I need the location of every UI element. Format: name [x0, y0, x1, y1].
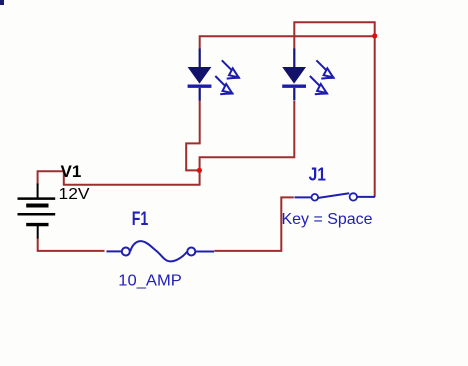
LED2 arrow 2: [310, 76, 328, 94]
battery V1: [18, 184, 56, 239]
switch J1: [295, 193, 376, 200]
LED1: [188, 49, 240, 101]
junction node B: [372, 33, 377, 38]
wire switch J1 left to fuse right: [214, 197, 293, 251]
LED1 arrow 1: [222, 60, 240, 78]
svg-text:J1: J1: [309, 164, 326, 184]
wire node A to LED1 cathode: [186, 100, 200, 170]
svg-text:F1: F1: [132, 209, 149, 230]
svg-text:10_AMP: 10_AMP: [118, 273, 182, 290]
LED2 arrow 1: [316, 60, 334, 78]
svg-text:12V: 12V: [59, 186, 90, 203]
wire battery plus to node A: [38, 170, 200, 185]
svg-text:V1: V1: [61, 162, 82, 181]
wire node A to LED2 cathode: [200, 101, 295, 170]
wire LED2 anode to switch J1 right via node B: [294, 22, 374, 197]
LED1 arrow 2: [215, 76, 233, 94]
screen artifact top-left: [0, 0, 4, 5]
wire fuse left to battery minus: [38, 238, 105, 251]
wire LED1 anode to node B: [200, 36, 375, 49]
fuse F1: [107, 241, 215, 261]
LED2: [282, 49, 334, 101]
svg-text:Key = Space: Key = Space: [282, 211, 373, 228]
junction node A: [197, 168, 202, 173]
